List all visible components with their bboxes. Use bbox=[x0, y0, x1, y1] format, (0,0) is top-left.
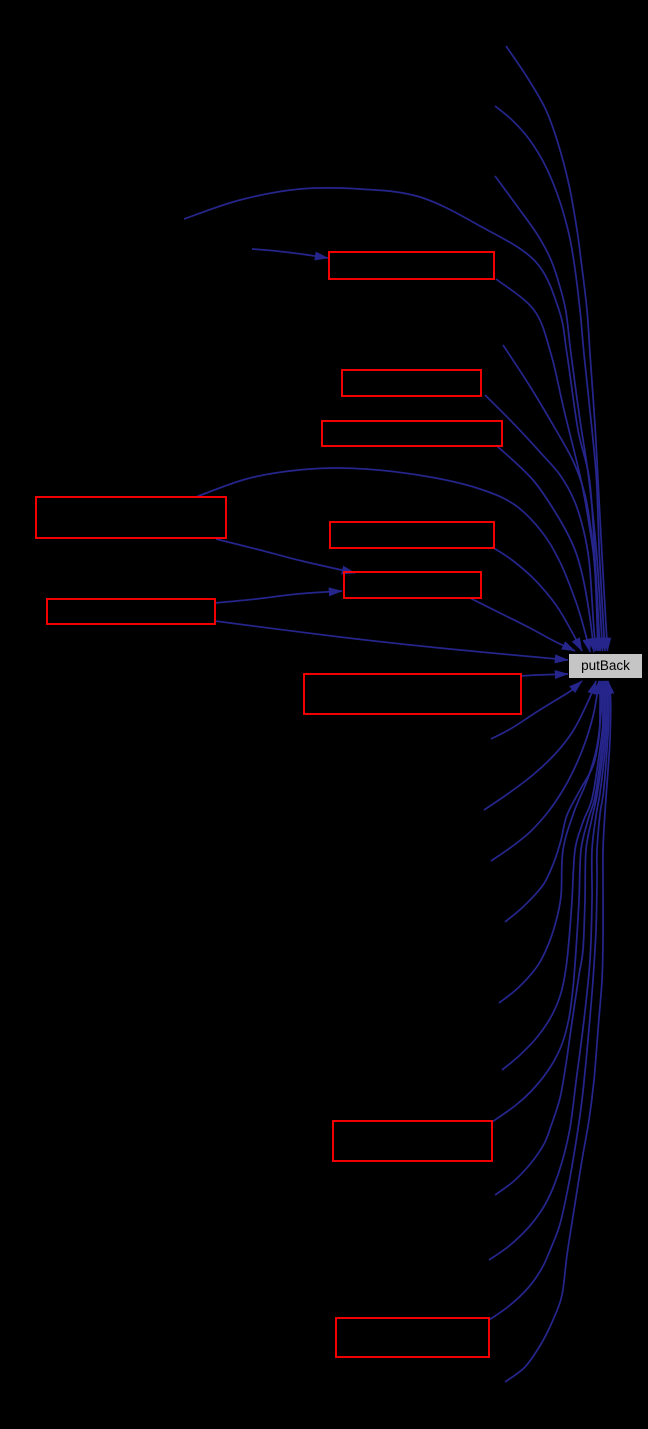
edge M box8 to putBack bbox=[521, 674, 568, 676]
edge H box3 to putBack bbox=[497, 446, 594, 652]
truncated caller node box3 bbox=[322, 421, 502, 446]
truncated caller node box10 bbox=[336, 1318, 489, 1357]
edge J box5 to putBack bbox=[492, 547, 582, 651]
edge G box2 to putBack bbox=[485, 395, 596, 651]
edge box4 to box6 bbox=[216, 539, 355, 573]
truncated caller node box6 bbox=[344, 572, 481, 598]
edge B (top caller) to putBack bbox=[495, 106, 605, 651]
truncated caller node box5 bbox=[330, 522, 494, 548]
edge K box6 to putBack bbox=[470, 598, 575, 651]
edge X (bottom caller) to putBack bbox=[505, 681, 611, 1382]
edge D (far-left caller) to putBack bbox=[184, 188, 600, 651]
edge A (top caller) to putBack bbox=[506, 46, 608, 651]
edge C (top caller) to putBack bbox=[495, 176, 603, 651]
edge L box7 to putBack bbox=[215, 621, 568, 660]
edge V (bottom caller) to putBack bbox=[489, 681, 608, 1260]
edge I box4 to putBack bbox=[196, 468, 590, 652]
truncated caller node box7 bbox=[47, 599, 215, 624]
edge T box9 to putBack bbox=[492, 681, 605, 1122]
truncated caller node box4 bbox=[36, 497, 226, 538]
edge W box10 to putBack bbox=[489, 681, 609, 1320]
node putBack bbox=[569, 654, 642, 678]
edge F box1 to putBack bbox=[496, 279, 598, 651]
truncated caller node box1 bbox=[329, 252, 494, 279]
svg-text:putBack: putBack bbox=[581, 658, 630, 673]
edge box7 to box6 bbox=[215, 591, 342, 603]
edge O (bottom caller) to putBack bbox=[484, 681, 596, 810]
edge N (bottom caller) to putBack bbox=[491, 681, 582, 739]
edge R (bottom caller) to putBack bbox=[499, 681, 602, 1003]
edge E (caller) to putBack bbox=[503, 345, 600, 651]
edge Q (bottom caller) to putBack bbox=[505, 681, 600, 922]
edge U (bottom caller) to putBack bbox=[495, 681, 606, 1195]
edge caller to box1 bbox=[252, 249, 328, 258]
truncated caller node box9 bbox=[333, 1121, 492, 1161]
edge P (bottom caller) to putBack bbox=[491, 681, 599, 861]
edge S (bottom caller) to putBack bbox=[502, 681, 603, 1070]
truncated caller node box2 bbox=[342, 370, 481, 396]
truncated caller node box8 bbox=[304, 674, 521, 714]
